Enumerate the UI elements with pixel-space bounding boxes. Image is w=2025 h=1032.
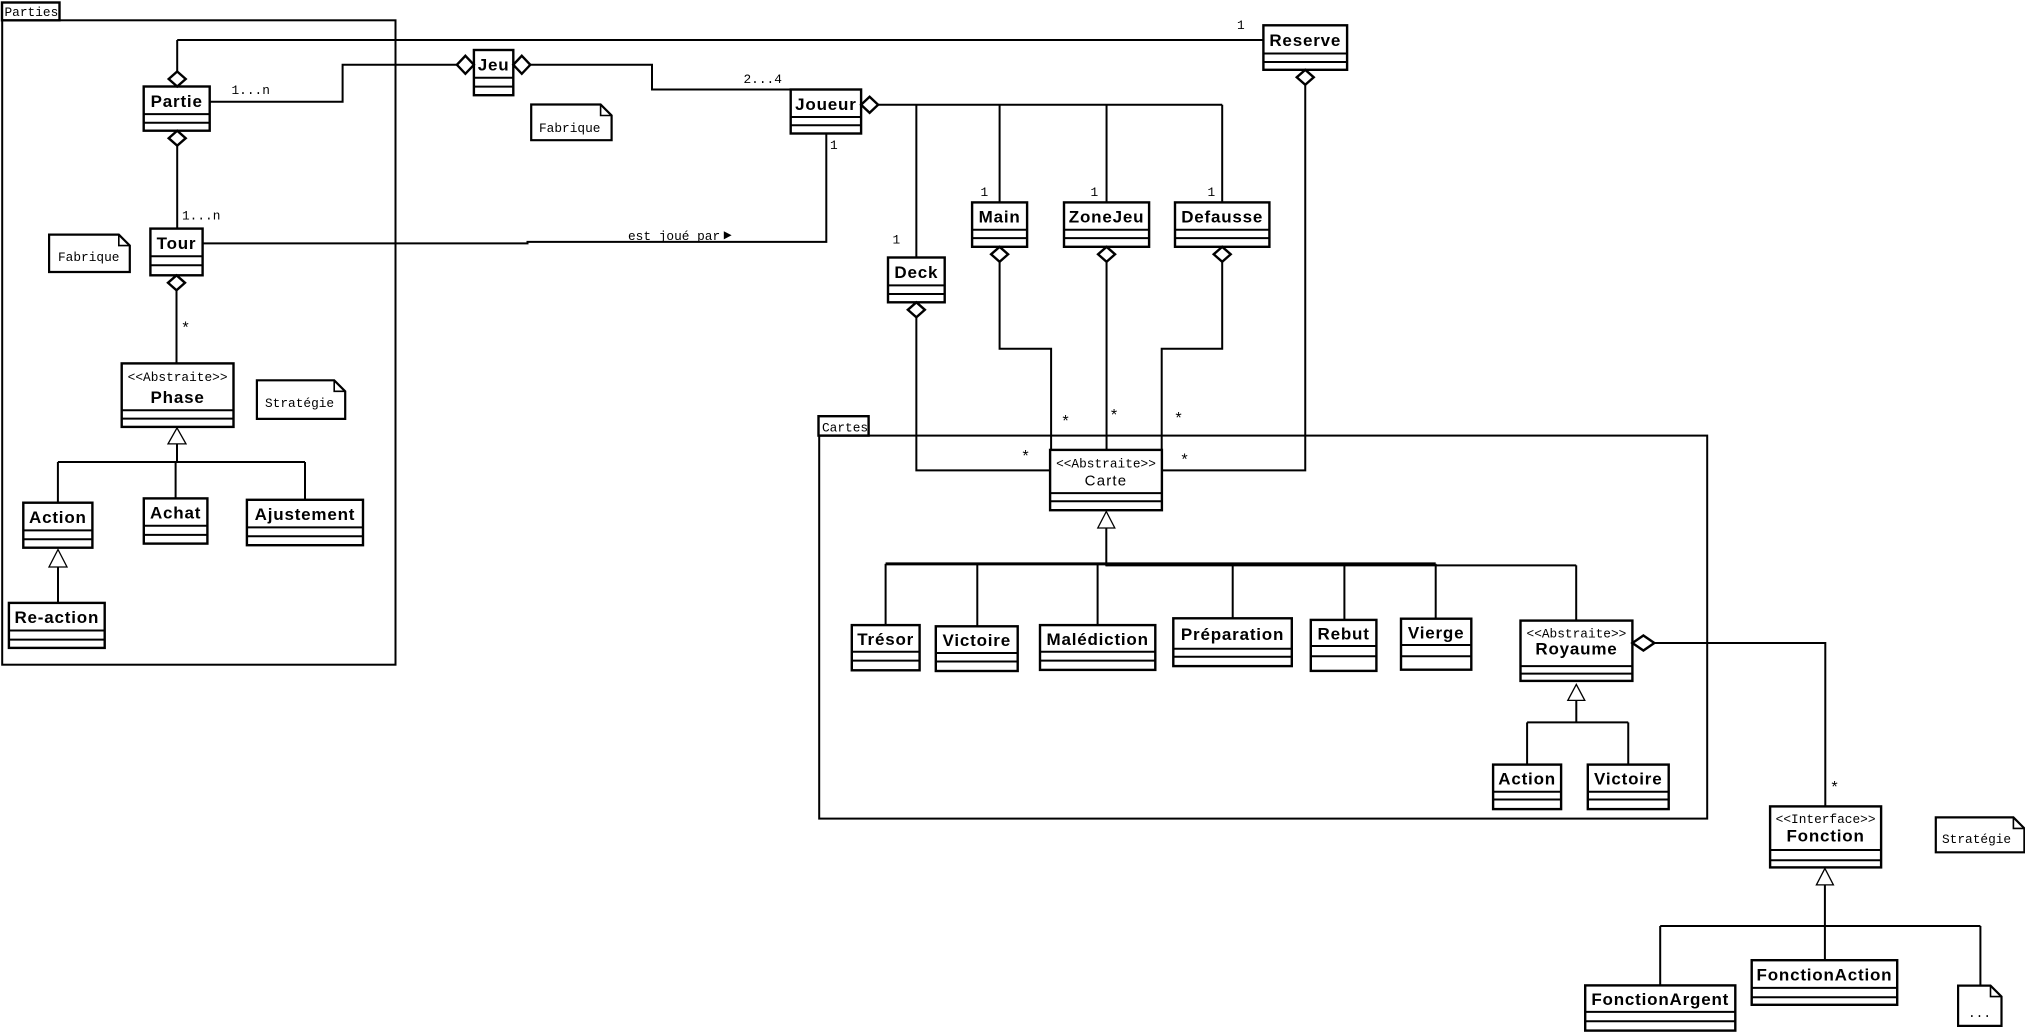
svg-text:Phase: Phase	[151, 388, 205, 407]
wire Tour to Joueur association est joue par	[203, 134, 838, 245]
inheritance triangle Phase	[168, 428, 186, 444]
class Joueur	[791, 90, 861, 134]
wire Fonction inheritance bus to FonctionArgent FonctionAction note	[1660, 885, 1980, 986]
svg-text:Fabrique: Fabrique	[58, 250, 119, 265]
class Rebut	[1311, 620, 1377, 671]
svg-text:1: 1	[981, 185, 989, 200]
svg-text:Partie: Partie	[151, 92, 203, 111]
wire Joueur aggregation bus to Main ZoneJeu Defausse Deck	[878, 105, 1222, 258]
svg-text:1...n: 1...n	[182, 209, 220, 224]
inheritance triangle Carte	[1098, 512, 1115, 529]
wire ZoneJeu to Carte aggregation *	[1107, 262, 1119, 450]
wire Royaume inheritance bus to Action Victoire	[1527, 701, 1628, 765]
wire Main to Carte aggregation *	[1000, 262, 1071, 450]
svg-text:<<Abstraite>>: <<Abstraite>>	[1056, 457, 1156, 472]
class Action (phase)	[23, 503, 92, 548]
package Cartes body	[819, 436, 1707, 819]
wire Defausse to Carte aggregation *	[1162, 262, 1223, 450]
class Victoire (royaume)	[1588, 765, 1669, 810]
wire Action to Re-action inheritance	[57, 567, 59, 603]
aggregation diamond Defausse bottom	[1214, 247, 1231, 262]
svg-text:Action: Action	[29, 508, 87, 527]
class Achat	[144, 498, 208, 543]
class Defausse	[1175, 202, 1269, 246]
aggregation diamond Jeu right	[513, 56, 530, 74]
svg-text:Re-action: Re-action	[14, 608, 99, 627]
class FonctionAction	[1752, 960, 1898, 1005]
note Fabrique (Jeu)	[531, 105, 611, 141]
svg-text:Préparation: Préparation	[1181, 625, 1284, 644]
class Malediction	[1040, 625, 1155, 670]
interface Fonction	[1770, 806, 1881, 867]
svg-text:Parties: Parties	[5, 5, 59, 20]
svg-text:2...4: 2...4	[744, 72, 783, 87]
wire Deck to Carte aggregation *	[916, 317, 1050, 470]
svg-text:Carte: Carte	[1085, 473, 1128, 490]
aggregation diamond ZoneJeu bottom	[1098, 247, 1115, 262]
svg-text:Main: Main	[979, 208, 1021, 227]
aggregation diamond Royaume right	[1632, 636, 1654, 651]
aggregation diamond Reserve bottom	[1297, 70, 1314, 85]
wire Jeu to Joueur aggregation 2...4	[530, 65, 790, 90]
class Deck	[888, 258, 945, 303]
class Action (royaume)	[1493, 765, 1561, 810]
class Jeu	[474, 50, 513, 95]
svg-text:Cartes: Cartes	[822, 420, 868, 435]
class Vierge	[1401, 619, 1471, 670]
svg-text:Action: Action	[1498, 770, 1556, 789]
wire Tour to Phase aggregation *	[177, 290, 191, 363]
svg-text:Joueur: Joueur	[795, 95, 856, 114]
class Tour	[150, 229, 202, 276]
package Parties body	[2, 20, 395, 664]
class Main	[972, 202, 1027, 246]
note Strategie (Fonction)	[1936, 817, 2025, 852]
class Royaume (abstract)	[1521, 621, 1633, 681]
aggregation diamond Jeu left	[457, 56, 474, 74]
svg-text:Trésor: Trésor	[857, 630, 914, 649]
svg-text:Jeu: Jeu	[478, 55, 510, 74]
svg-text:Deck: Deck	[894, 263, 938, 282]
svg-text:Ajustement: Ajustement	[255, 505, 356, 524]
aggregation diamond Tour bottom	[168, 275, 185, 290]
class Preparation	[1173, 618, 1292, 666]
svg-text:<<Interface>>: <<Interface>>	[1776, 812, 1876, 827]
class Carte (abstract)	[1050, 450, 1162, 510]
svg-text:*: *	[1109, 408, 1119, 426]
svg-text:*: *	[1061, 414, 1071, 432]
svg-text:Victoire: Victoire	[943, 631, 1011, 650]
aggregation diamond Partie top	[169, 72, 186, 87]
wire Royaume to Fonction aggregation *	[1654, 643, 1839, 806]
inheritance triangle Fonction	[1816, 868, 1833, 885]
aggregation diamond Deck bottom	[908, 302, 925, 317]
svg-text:FonctionAction: FonctionAction	[1757, 966, 1893, 985]
wire Reserve to Carte aggregation *	[1162, 85, 1305, 471]
svg-text:Malédiction: Malédiction	[1046, 630, 1148, 649]
svg-text:1: 1	[1237, 18, 1245, 33]
svg-text:ZoneJeu: ZoneJeu	[1069, 208, 1145, 227]
svg-text:...: ...	[1968, 1006, 1991, 1021]
svg-text:*: *	[181, 320, 191, 338]
wire Phase inheritance bus to Action Achat Ajustement	[58, 444, 305, 503]
svg-text:Royaume: Royaume	[1535, 640, 1617, 659]
svg-text:Defausse: Defausse	[1181, 208, 1263, 227]
svg-text:Achat: Achat	[150, 504, 201, 523]
note ellipsis	[1958, 986, 2001, 1026]
class Re-action	[9, 603, 105, 648]
note Fabrique (Tour)	[49, 235, 130, 272]
svg-text:Rebut: Rebut	[1318, 624, 1370, 643]
svg-text:Stratégie: Stratégie	[1942, 832, 2011, 847]
svg-text:1: 1	[1208, 185, 1216, 200]
svg-text:1: 1	[830, 138, 838, 153]
svg-text:Victoire: Victoire	[1594, 770, 1662, 789]
wire Carte inheritance bus to card subclasses	[886, 528, 1577, 626]
class Reserve	[1263, 25, 1347, 70]
svg-text:Fabrique: Fabrique	[539, 121, 600, 136]
inheritance triangle Action	[49, 550, 67, 568]
svg-text:1: 1	[1091, 185, 1099, 200]
svg-text:Vierge: Vierge	[1408, 623, 1464, 642]
svg-text:1: 1	[893, 232, 901, 247]
class Victoire (carte)	[936, 626, 1018, 671]
svg-text:FonctionArgent: FonctionArgent	[1591, 990, 1729, 1009]
package Parties tab	[2, 3, 60, 21]
svg-text:Stratégie: Stratégie	[265, 396, 334, 411]
svg-text:<<Abstraite>>: <<Abstraite>>	[128, 370, 228, 385]
svg-text:Tour: Tour	[157, 234, 197, 253]
class ZoneJeu	[1064, 202, 1149, 246]
class Tresor	[852, 625, 920, 670]
svg-text:Fonction: Fonction	[1787, 827, 1865, 846]
svg-text:1...n: 1...n	[232, 83, 270, 98]
class Ajustement	[247, 500, 363, 545]
wire Partie to Tour aggregation 1...n	[177, 146, 220, 229]
svg-text:*: *	[1174, 411, 1184, 429]
svg-text:*: *	[1021, 449, 1031, 467]
class FonctionArgent	[1585, 985, 1735, 1030]
aggregation diamond Main bottom	[991, 247, 1008, 262]
aggregation diamond Partie bottom	[169, 131, 186, 146]
svg-text:*: *	[1830, 780, 1840, 798]
svg-text:Reserve: Reserve	[1269, 31, 1341, 50]
inheritance triangle Royaume	[1568, 684, 1585, 700]
aggregation diamond Joueur right	[861, 97, 878, 113]
note Strategie (Phase)	[257, 380, 345, 419]
svg-text:*: *	[1180, 452, 1190, 470]
class Partie	[144, 87, 210, 131]
class Phase (abstract)	[122, 363, 234, 427]
wire Partie to Jeu association 1...n	[210, 65, 457, 102]
wire Partie to Reserve aggregation	[177, 18, 1263, 72]
svg-text:est joué par: est joué par	[628, 229, 720, 244]
package Cartes tab	[819, 416, 869, 435]
